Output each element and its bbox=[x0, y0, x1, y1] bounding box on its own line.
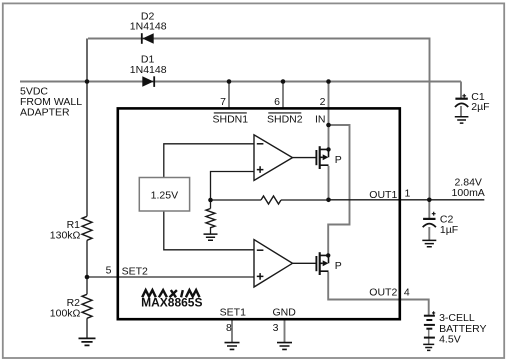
svg-text:1N4148: 1N4148 bbox=[130, 21, 167, 33]
svg-text:1µF: 1µF bbox=[440, 224, 458, 236]
svg-text:SHDN2: SHDN2 bbox=[267, 113, 303, 125]
ground: C1 ground bbox=[455, 117, 469, 123]
resistor R2 100k bbox=[82, 294, 92, 318]
wire: 5VDC adapter rail (net VIN) bbox=[20, 82, 461, 99]
node: feedback tap junction bbox=[208, 198, 213, 203]
wire: pin 7 stub from VIN rail to SHDN1 bbox=[228, 82, 230, 109]
wire: SET2 net from divider tap through pin 5 to A2 + input bbox=[87, 276, 254, 278]
wire: Q1 drain drop to OUT1 node bbox=[328, 166, 330, 200]
ground: divider bottom ground bbox=[79, 338, 96, 345]
reference block 1.25V bbox=[139, 178, 189, 212]
resistor: internal feedback resistor OUT1 to tap bbox=[261, 196, 281, 204]
resistor: internal divider resistor to ground bbox=[206, 209, 215, 228]
svg-text:2: 2 bbox=[320, 96, 326, 108]
node: pin 2 rail junction bbox=[326, 79, 331, 84]
svg-text:ADAPTER: ADAPTER bbox=[20, 107, 70, 119]
wire: C2 stub from OUT1 node bbox=[428, 200, 430, 218]
node: SET2 divider tap junction bbox=[85, 275, 90, 280]
ground: GND pin ground bbox=[277, 343, 292, 350]
svg-text:1N4148: 1N4148 bbox=[130, 64, 167, 76]
wire: A1 non-inverting input node (feedback tap) bbox=[211, 172, 329, 235]
svg-text:SHDN1: SHDN1 bbox=[213, 113, 249, 125]
resistor R1 130k bbox=[82, 216, 92, 240]
svg-text:SET1: SET1 bbox=[220, 306, 246, 318]
transistor Q2 P-channel pass FET bbox=[316, 252, 328, 275]
node: IN branch junction bbox=[326, 123, 331, 128]
node: pin 7 rail junction bbox=[227, 79, 232, 84]
ground: internal divider resistor ground bbox=[204, 234, 218, 240]
transistor Q1 P-channel pass FET bbox=[316, 146, 328, 169]
wire: battery backup line from D2 down to OUT1 node bbox=[88, 39, 430, 200]
svg-text:1: 1 bbox=[405, 188, 411, 200]
capacitor C1 2uF (polarized) bbox=[455, 94, 468, 107]
wire: A2 output to Q2 gate bbox=[293, 262, 317, 264]
node: Q1 source junction bbox=[326, 147, 330, 151]
svg-text:4.5V: 4.5V bbox=[439, 333, 461, 345]
svg-text:7: 7 bbox=[220, 96, 226, 108]
IC U1 MAX8865S package outline bbox=[118, 108, 400, 319]
battery B1 3-cell 4.5V bbox=[424, 311, 435, 337]
wire: A2 inverting input from 1.25V reference bottom bbox=[164, 211, 254, 250]
ground: battery ground bbox=[423, 344, 434, 350]
svg-text:3: 3 bbox=[273, 322, 279, 334]
svg-text:1.25V: 1.25V bbox=[151, 189, 178, 201]
ground: C2 ground bbox=[422, 240, 436, 246]
svg-text:6: 6 bbox=[274, 96, 280, 108]
node: Q1 drain / OUT1 junction bbox=[326, 198, 331, 203]
wire: OUT1 net line through pin 1 to load bbox=[329, 199, 485, 201]
wire: battery lower stem to ground bbox=[428, 329, 430, 344]
svg-text:100kΩ: 100kΩ bbox=[50, 308, 81, 320]
wire: pin 3 GND stub to ground bbox=[284, 320, 286, 342]
wire: A1 output to Q1 gate bbox=[293, 157, 317, 159]
svg-text:SET2: SET2 bbox=[122, 265, 148, 277]
svg-text:130kΩ: 130kΩ bbox=[50, 230, 81, 242]
wire: pin 6 stub from VIN rail to SHDN2 bbox=[282, 82, 284, 109]
svg-text:5: 5 bbox=[106, 265, 112, 277]
wire: pin 8 SET1 stub to ground bbox=[231, 320, 233, 342]
logo MAXIM bbox=[142, 290, 199, 297]
svg-text:8: 8 bbox=[226, 322, 232, 334]
wire: A1 inverting input from 1.25V reference top bbox=[164, 144, 254, 178]
wire: OUT2 net from Q2 drain through pin 4 to battery bbox=[328, 272, 429, 315]
svg-text:4: 4 bbox=[404, 286, 410, 298]
svg-text:OUT2: OUT2 bbox=[369, 286, 397, 298]
svg-text:2µF: 2µF bbox=[471, 101, 489, 113]
svg-text:OUT1: OUT1 bbox=[369, 189, 397, 201]
svg-text:GND: GND bbox=[273, 306, 297, 318]
op-amp U1b (lower error amplifier) bbox=[254, 240, 293, 287]
node: OUT1 / C2 / D2 junction bbox=[427, 198, 432, 203]
svg-text:IN: IN bbox=[315, 113, 326, 125]
op-amp U1a (upper error amplifier) bbox=[254, 135, 293, 181]
node: pin 6 rail junction bbox=[281, 79, 286, 84]
wire: C1 stub to ground bbox=[460, 106, 462, 117]
wire: C2 lower stub to ground bbox=[428, 227, 430, 240]
diode D1 1N4148 (anode left) bbox=[142, 76, 154, 87]
svg-text:P: P bbox=[335, 260, 342, 272]
node: Q2 source junction bbox=[326, 253, 330, 257]
node: adapter/divider junction bbox=[85, 79, 90, 84]
diode D2 1N4148 (cathode left) bbox=[142, 33, 154, 44]
ground: SET1 pin ground bbox=[225, 343, 240, 350]
wire: IN net branch to both pass-FET sources bbox=[328, 125, 349, 255]
svg-text:100mA: 100mA bbox=[452, 187, 485, 199]
wire: divider chain vertical at adapter node bbox=[86, 39, 88, 339]
svg-text:MAX8865S: MAX8865S bbox=[141, 296, 202, 310]
capacitor C2 1uF (polarized) bbox=[423, 212, 436, 227]
wire: pin 2 stub from VIN rail into IN bbox=[328, 82, 330, 126]
svg-text:P: P bbox=[335, 154, 342, 166]
